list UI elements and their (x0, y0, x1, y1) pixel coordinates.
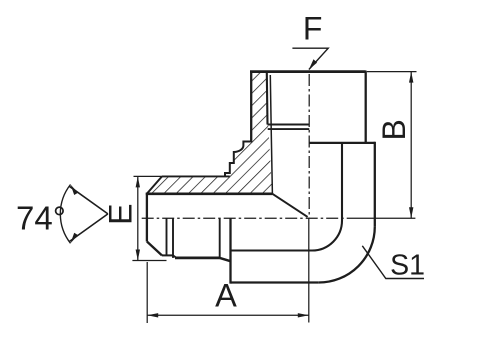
leader S1 (362, 246, 424, 279)
A left extension (146, 262, 148, 323)
port bottom line 2 (268, 128, 310, 130)
E arrow top (136, 176, 140, 187)
extension of horizontal axis to B dimension (solid) (350, 217, 415, 219)
groove wall 2 (172, 219, 174, 258)
svg-text:S1: S1 (390, 249, 425, 281)
mid silhouette vertical of vertical leg (341, 143, 343, 221)
B arrow top (409, 72, 413, 83)
dimension E line (137, 176, 139, 260)
vertical centerline (female port axis) (308, 74, 310, 218)
top face of female port boss (250, 70, 366, 73)
B arrow bottom (409, 207, 413, 218)
nose flare chamfer (bottom) (147, 242, 162, 256)
body right edge (374, 142, 376, 227)
drill cone of horizontal passage (272, 194, 307, 217)
boss right edge (365, 71, 367, 143)
outer corner arc S1 (319, 227, 375, 283)
74 degree arc (60, 185, 70, 244)
thread chamfer (top) (147, 176, 162, 193)
F leader arrow (309, 59, 317, 69)
nose face (146, 193, 148, 242)
female thread major line / pilot bore (270, 75, 272, 194)
74 degree cone upper line (69, 186, 108, 214)
dimension B line (410, 72, 412, 219)
female port bore line (266, 73, 269, 125)
body left face (229, 219, 231, 284)
mid blend arc (312, 221, 342, 251)
leader F (292, 48, 328, 69)
mid silhouette horizontal of horizontal leg (231, 249, 313, 251)
thread runout (220, 258, 231, 261)
stem bore line (section) (146, 192, 273, 195)
boss shoulder (309, 142, 375, 144)
port bottom line 1 (268, 124, 310, 126)
body bottom edge (231, 281, 319, 283)
svg-text:B: B (376, 119, 412, 140)
male thread crest line (top, section) (162, 175, 230, 177)
A arrow left (147, 313, 158, 317)
B extension top (367, 71, 417, 73)
thread OD line (bottom) (175, 257, 220, 260)
nose land (162, 254, 173, 256)
74 degree cone lower line (69, 214, 108, 242)
section hatch region (body cut) (147, 73, 273, 194)
74 arc arrow bottom (71, 233, 79, 244)
A arrow right (298, 313, 309, 317)
groove wall 1 (166, 219, 168, 256)
thread start step (173, 255, 177, 258)
stepped section profile left of boss (225, 142, 251, 177)
dimension A line (147, 314, 309, 316)
horizontal centerline (male stem axis) (142, 217, 350, 219)
svg-text:F: F (303, 11, 323, 47)
extension of vertical axis to A dimension (solid) (308, 218, 310, 322)
thread end vertical (219, 219, 221, 259)
E arrow bottom (136, 250, 140, 261)
E extension top (134, 175, 168, 177)
svg-text:A: A (215, 278, 237, 314)
svg-text:74°: 74° (16, 200, 66, 237)
boss left edge (250, 71, 252, 143)
E extension bottom (132, 260, 166, 262)
74 arc arrow top (71, 185, 79, 196)
